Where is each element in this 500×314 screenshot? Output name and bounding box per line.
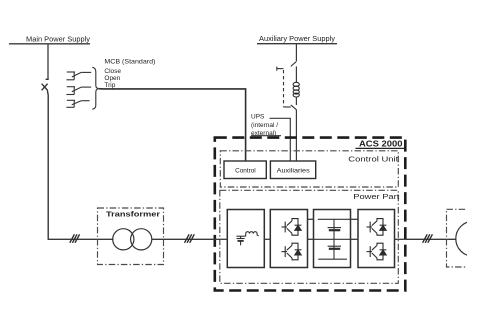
motor M — [456, 221, 491, 256]
wire: dc-link to inverter (dc+) — [351, 218, 359, 220]
wire: auxiliary drop — [295, 44, 297, 62]
three-phase marks (feeder) — [70, 234, 80, 243]
transformer winding 1 — [113, 229, 134, 250]
contactor lower contact — [284, 105, 297, 110]
motor enclosure (dash-dot, clipped) — [447, 209, 500, 267]
svg-text:Power Part: Power Part — [353, 192, 399, 201]
svg-text:MCB (Standard): MCB (Standard) — [104, 58, 155, 65]
wire: lv feeder to transformer — [48, 238, 114, 240]
coil / choke — [293, 82, 299, 97]
wire: auxiliary busbar — [257, 43, 337, 45]
wire: coil to lower contact — [295, 97, 297, 106]
wire: trip command to control — [99, 89, 246, 162]
svg-text:UPS: UPS — [251, 113, 265, 120]
inverter box — [358, 210, 395, 268]
IGBT with diode (inverter top) — [367, 219, 387, 236]
contactor upper contact — [277, 62, 296, 71]
filter: shunt capacitor — [237, 236, 245, 245]
DC-link capacitor 1 — [328, 228, 341, 231]
wire: dc-link to inverter (dc-) — [351, 238, 359, 240]
filter: inductor — [246, 232, 259, 236]
filter: line — [236, 235, 245, 237]
circuit breaker (MCB) — [42, 79, 49, 239]
wire: between contacts — [295, 66, 297, 82]
wire: main supply busbar — [9, 43, 90, 45]
Control box — [224, 161, 266, 179]
IGBT with diode (rectifier bottom) — [282, 243, 302, 260]
wire: main supply drop — [47, 44, 49, 80]
wire: inverter to acs border — [395, 238, 406, 240]
IGBT with diode (inverter bottom) — [367, 243, 387, 260]
wire: rectifier to dc-link (dc-) — [308, 238, 314, 240]
svg-text:(internal /: (internal / — [251, 122, 278, 129]
wire: transformer to acs — [152, 238, 215, 240]
MCB auxiliary contact 1 — [66, 72, 91, 80]
DC-link capacitor 2 — [328, 246, 341, 249]
wire: acs to motor — [405, 238, 456, 240]
svg-text:Auxiliaries: Auxiliaries — [277, 168, 310, 175]
Power Part enclosure (dash-dot) — [220, 190, 398, 283]
wire: auxiliary feed into auxiliaries box — [295, 110, 297, 162]
rule under ACS 2000 — [356, 147, 405, 149]
IGBT with diode (rectifier top) — [282, 219, 302, 236]
transformer winding 2 — [131, 229, 152, 250]
brace grouping MCB contacts — [92, 67, 98, 109]
wire: UPS to auxiliaries — [270, 118, 291, 161]
svg-text:Main Power Supply: Main Power Supply — [26, 36, 91, 43]
Auxiliaries box — [270, 161, 315, 179]
DC-link box — [314, 210, 351, 268]
wire: UPS label underline — [251, 135, 281, 137]
white crop at page edge — [467, 0, 500, 314]
MCB auxiliary contact 2 — [66, 87, 91, 95]
input filter box — [227, 210, 264, 268]
svg-text:Transformer: Transformer — [106, 209, 160, 218]
svg-text:Auxiliary Power Supply: Auxiliary Power Supply — [259, 36, 336, 43]
MCB auxiliary contact 3 — [66, 100, 89, 107]
svg-text:Open: Open — [104, 75, 120, 82]
transformer enclosure (dash-dot) — [98, 208, 164, 265]
contactor linkage (dashed) — [283, 70, 285, 107]
three-phase marks (motor cable) — [423, 234, 433, 243]
svg-text:Control Unit: Control Unit — [348, 155, 398, 164]
wire: acs input — [215, 238, 228, 240]
Control Unit enclosure (dash-dot) — [220, 151, 398, 187]
ACS 2000 enclosure (dashed) — [215, 138, 405, 291]
rectifier box — [270, 210, 307, 268]
wire: filter to rectifier — [264, 238, 270, 240]
three-phase marks (transformer secondary) — [185, 234, 195, 243]
DC-link rails — [314, 219, 351, 259]
svg-text:ACS 2000: ACS 2000 — [359, 139, 403, 149]
wire: rectifier to dc-link (dc+) — [308, 218, 314, 220]
svg-text:Control: Control — [235, 168, 256, 175]
